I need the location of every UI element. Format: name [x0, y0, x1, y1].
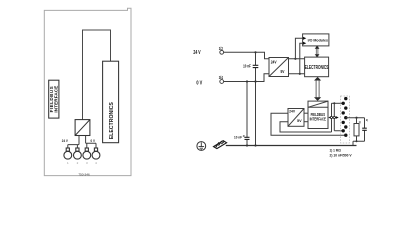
svg-text:2): 2): [243, 135, 245, 138]
svg-text:24V: 24V: [271, 59, 277, 65]
svg-text:24 V: 24 V: [193, 49, 200, 55]
svg-text:5V: 5V: [280, 69, 284, 75]
svg-text:ELECTRONICS: ELECTRONICS: [305, 64, 329, 70]
svg-text:24V: 24V: [289, 109, 296, 113]
svg-text:750-346: 750-346: [78, 173, 90, 177]
svg-text:0 V: 0 V: [196, 80, 203, 86]
svg-text:0 V: 0 V: [91, 139, 96, 143]
svg-text:5V: 5V: [297, 118, 302, 123]
svg-text:1) 1 MΩ: 1) 1 MΩ: [330, 148, 342, 152]
svg-text:2) 10 nF/500 V: 2) 10 nF/500 V: [330, 153, 353, 157]
svg-text:INTERFACE: INTERFACE: [310, 117, 327, 122]
svg-text:2): 2): [366, 119, 368, 122]
svg-text:10 nF: 10 nF: [243, 64, 251, 69]
svg-text:INTERFACE: INTERFACE: [54, 86, 59, 113]
svg-text:I/O Modules: I/O Modules: [308, 39, 328, 43]
svg-text:1): 1): [359, 121, 361, 124]
svg-text:10 nF: 10 nF: [234, 135, 242, 139]
svg-text:24 V: 24 V: [62, 139, 69, 143]
svg-text:ELECTRONICS: ELECTRONICS: [109, 102, 115, 140]
